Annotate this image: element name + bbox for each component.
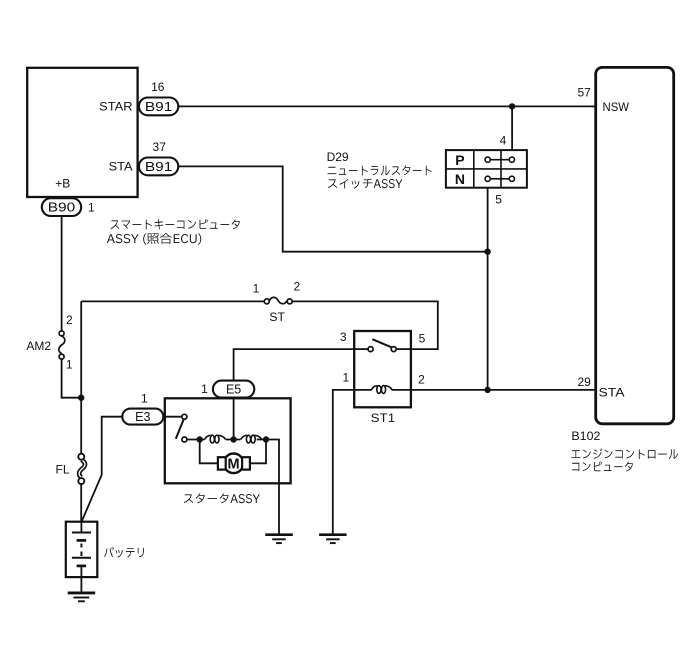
svg-text:E3: E3 [135,410,150,424]
svg-text:16: 16 [151,80,165,94]
component name label: battery [104,547,144,558]
fusible link FL [78,454,85,484]
ground (battery) [68,593,96,601]
svg-text:B90: B90 [48,201,76,215]
relay ST1 switch lever [372,339,392,347]
junction dot coil node 2 (E5) [230,436,236,442]
svg-text:1: 1 [253,282,260,296]
wire motor left branch [200,440,218,464]
component name label: neutral start [328,165,432,175]
svg-text:1: 1 [88,200,95,214]
svg-text:3: 3 [340,330,347,344]
relay ST1 box [354,331,411,407]
svg-text:N: N [455,171,465,187]
battery plate short 1 [77,539,87,542]
svg-text:B91: B91 [145,160,173,174]
switch D29 internal dividers [446,150,527,188]
connector B91 (STAR pin 16) [139,98,178,116]
svg-text:B102: B102 [571,429,600,443]
wire B90 to AM2 fuse [61,207,63,331]
svg-text:+B: +B [55,177,70,191]
svg-text:STA: STA [109,159,133,173]
component name label: engine control [571,448,677,459]
junction dot pin5-net / STA wire [484,387,490,393]
component name label line 2: ASSY (verification ECU) [107,233,201,245]
connector B91 (STA pin 37) [139,158,178,176]
relay ST1 switch wire pin 3 side [354,348,368,350]
svg-text:ST: ST [269,310,285,324]
svg-text:NSW: NSW [603,100,630,114]
ground (starter ASSY) [265,535,293,543]
ECU box (smart key computer) [27,68,137,197]
wire AM2 to main battery feed junction [62,359,82,398]
motor M circle [224,454,244,474]
wire ST fuse feed vertical [80,301,82,397]
wire battery feed down to FL [80,398,82,454]
starter ASSY box [165,398,291,483]
battery plate short 2 [77,565,87,568]
svg-text:P: P [455,152,464,168]
svg-text:ST1: ST1 [371,411,396,425]
svg-text:M: M [228,457,240,473]
battery internal stub bottom [80,566,82,577]
svg-text:1: 1 [201,382,208,396]
wire battery to ground [80,577,82,593]
junction dot coil node 1 [197,436,203,442]
fuse AM2 [59,331,65,359]
component name label: starter ASSY [184,493,260,503]
wire ST1 pin 3 to E5 [234,349,355,380]
switch contacts N row [485,176,514,181]
wire NSW pin 4 drop [511,106,513,150]
junction dot coil node 3 [263,436,269,442]
starter magnetic switch contacts [182,414,187,442]
starter coil 2 (hold-in) [241,435,262,443]
svg-text:5: 5 [419,332,426,346]
component name label line 1: smart key computer [111,219,240,229]
connector E5 on wire [213,381,254,398]
svg-text:1: 1 [141,391,148,405]
wire STAR net: B91 to NSW box pin 57 [178,105,596,107]
svg-text:57: 57 [577,86,591,100]
svg-text:2: 2 [66,313,73,327]
connector E3 on wire [122,409,163,425]
wire E3 to battery [82,417,123,521]
battery internal stub top [80,522,82,533]
battery box [66,522,98,577]
svg-text:29: 29 [577,375,591,389]
svg-text:STAR: STAR [99,100,133,114]
svg-text:FL: FL [56,463,70,477]
ECU box B102 engine control computer [596,67,674,423]
svg-text:4: 4 [500,134,507,148]
svg-text:D29: D29 [327,150,349,164]
relay ST1 coil [354,386,411,394]
wire STA net: B91 down to junction [178,166,488,251]
wire starter coil line [187,440,279,535]
battery dashed middle [80,544,82,557]
wire FL to battery [80,484,82,522]
svg-text:5: 5 [495,193,502,207]
svg-text:2: 2 [294,280,301,294]
svg-text:AM2: AM2 [26,339,51,353]
component name label: computer [572,462,633,472]
switch D29 neutral start switch box [446,150,527,188]
relay ST1 switch wire pin 5 side [396,348,411,350]
starter switch lever [176,419,184,438]
svg-text:STA: STA [599,386,625,400]
wire E5 into starter to coil junction [233,398,235,440]
svg-text:1: 1 [342,370,349,384]
battery plate long 2 [72,557,91,559]
connector B90 (+B pin 1) [42,198,81,216]
wire ST1 pin 2 to B102 pin 29 [411,389,596,391]
wire E3 to starter switch contact [163,416,182,418]
fuse ST [264,297,292,304]
wire NSW pin 5 vertical down to STA relay wire [487,188,489,390]
relay ST1 switch contacts [368,347,396,352]
ground (relay ST1) [319,535,347,543]
wire ST1 pin 1 to ground [333,390,354,535]
battery plate long 1 [72,532,91,534]
motor terminal brackets [218,457,250,469]
svg-text:37: 37 [153,140,167,154]
wire ST fuse line horizontal [81,301,438,349]
starter coil 1 (pull-in) [205,435,226,443]
switch contacts P row [485,157,514,162]
junction dot battery feed node [78,395,84,401]
svg-text:2: 2 [418,372,425,386]
svg-text:E5: E5 [226,383,241,397]
junction dot on STAR wire above NSW pin 4 [509,103,515,109]
junction dot node STA/pin5 [484,249,490,255]
component name label: switch ASSY [328,179,403,189]
svg-text:B91: B91 [145,100,173,114]
svg-text:1: 1 [66,358,73,372]
wire motor right branch [249,440,266,464]
